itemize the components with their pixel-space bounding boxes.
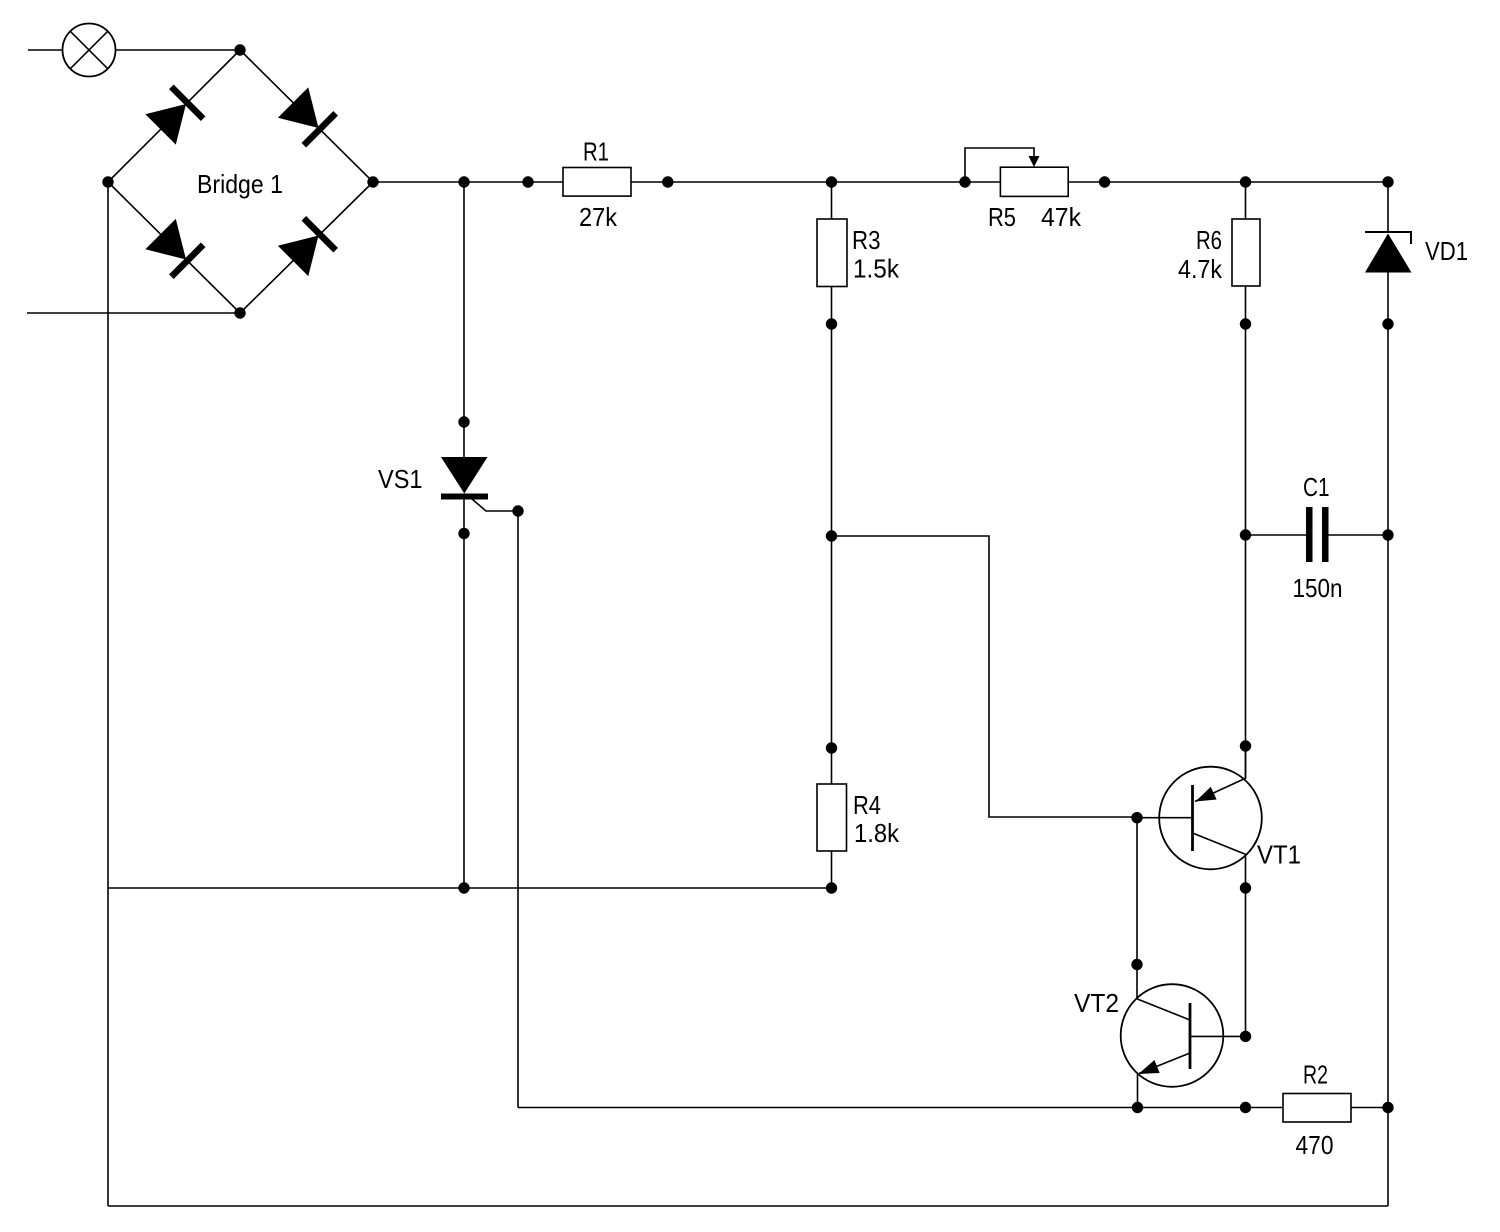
junction R6 bottom pin xyxy=(1240,318,1251,329)
wire VD1 anode down right rail xyxy=(1387,273,1389,1207)
junction R2 right node xyxy=(1382,1102,1393,1113)
wire VT1 base down to VT2 collector xyxy=(1136,817,1138,999)
junction bridge bottom node xyxy=(234,307,245,318)
capacitor C1 xyxy=(1246,507,1389,562)
resistor R1 xyxy=(563,168,631,197)
svg-text:VT2: VT2 xyxy=(1074,988,1119,1018)
svg-text:150n: 150n xyxy=(1293,573,1343,603)
wire bottom mid horizontal xyxy=(518,1107,1283,1109)
bridge diode (top-left) xyxy=(145,85,206,146)
thyristor VS1 xyxy=(441,182,518,888)
wire VT1 emitter up pin xyxy=(1245,746,1247,779)
wire bridge side bottom-right xyxy=(240,182,373,313)
potentiometer R5 xyxy=(965,148,1068,196)
wire VS1 gate down xyxy=(517,511,519,1108)
junction R3 bottom pin xyxy=(826,318,837,329)
junction VT1 base node xyxy=(1131,812,1142,823)
wire main top rail segment 3 xyxy=(1068,181,1388,183)
svg-text:VT1: VT1 xyxy=(1257,840,1301,870)
svg-text:VD1: VD1 xyxy=(1425,236,1468,266)
bridge diode (top-right) xyxy=(277,87,338,148)
svg-text:R4: R4 xyxy=(853,790,881,820)
junction bridge right node xyxy=(367,176,378,187)
svg-text:1.5k: 1.5k xyxy=(853,254,900,284)
junction C1 right node xyxy=(1382,529,1393,540)
junction VT2 collector pin xyxy=(1131,959,1142,970)
junction bridge top node xyxy=(234,44,245,55)
wire AC input stub bottom xyxy=(27,312,240,314)
junction VD1 anode pin xyxy=(1382,318,1393,329)
svg-text:R1: R1 xyxy=(583,137,609,167)
transistor VT1 (PNP) xyxy=(1137,767,1262,870)
wire bridge side top-left xyxy=(108,50,240,182)
junction VT2 emitter node xyxy=(1132,1102,1143,1113)
junction VS1 cathode wire node xyxy=(458,882,469,893)
svg-text:27k: 27k xyxy=(579,202,618,232)
junction VT1 emitter pin xyxy=(1240,740,1251,751)
wire VT1 collector down to VT2 base xyxy=(1245,854,1247,1036)
wire R2 right pin xyxy=(1351,1107,1388,1109)
junction VS1 gate pin xyxy=(512,505,523,516)
wire R6 bottom down to VT1 emitter xyxy=(1245,286,1247,779)
svg-text:C1: C1 xyxy=(1303,472,1330,502)
resistor R3 xyxy=(817,219,847,287)
wire bridge side bottom-left xyxy=(108,182,240,313)
junction rail VS1 branch xyxy=(458,176,469,187)
svg-text:VS1: VS1 xyxy=(378,464,423,494)
wire R6 top pin xyxy=(1245,182,1247,219)
svg-text:R3: R3 xyxy=(852,225,881,255)
junction R1 left pin xyxy=(522,176,533,187)
wire R3 bottom to R4 top xyxy=(831,287,833,785)
junction VS1 cathode pin xyxy=(458,528,469,539)
wire R3 top pin xyxy=(831,182,833,219)
wire main top rail segment 2 xyxy=(631,181,1000,183)
junction R1 right pin xyxy=(662,176,673,187)
junction R4 top pin xyxy=(826,742,837,753)
wire bottom rail xyxy=(108,1205,1388,1207)
junction rail VD1 branch xyxy=(1382,176,1393,187)
svg-text:4.7k: 4.7k xyxy=(1178,254,1223,284)
junction VT2 base pin xyxy=(1240,1031,1251,1042)
bridge diode (bottom-right) xyxy=(277,216,338,277)
svg-text:470: 470 xyxy=(1296,1130,1334,1160)
transistor VT2 (NPN) xyxy=(1121,984,1246,1107)
junction rail R3 branch xyxy=(826,176,837,187)
junction R5 left pin xyxy=(959,176,970,187)
junction rail R6 branch xyxy=(1240,176,1251,187)
wire horizontal left-rail to R4 bottom xyxy=(108,887,832,889)
svg-text:1.8k: 1.8k xyxy=(854,818,900,848)
wire main top rail segment 1 xyxy=(373,181,563,183)
junction R4 bottom node xyxy=(826,882,837,893)
junction R2 left pin xyxy=(1240,1102,1251,1113)
resistor R2 xyxy=(1283,1094,1351,1123)
svg-text:R5: R5 xyxy=(988,202,1016,232)
zener diode VD1 xyxy=(1365,182,1412,273)
bridge diode (bottom-left) xyxy=(145,218,206,279)
svg-text:R6: R6 xyxy=(1196,225,1222,255)
svg-text:Bridge 1: Bridge 1 xyxy=(197,169,283,199)
wire AC input stub to lamp xyxy=(28,49,63,51)
svg-text:47k: 47k xyxy=(1041,202,1082,232)
junction VT1 collector pin xyxy=(1240,882,1251,893)
wire mid link to VT1 base xyxy=(832,536,1138,817)
junction VS1 anode pin xyxy=(458,416,469,427)
junction bridge left node xyxy=(102,176,113,187)
wire left rail (bridge left node down) xyxy=(107,182,109,1206)
wire R4 bottom pin xyxy=(831,851,833,888)
resistor R4 xyxy=(817,784,847,851)
resistor R6 xyxy=(1232,219,1260,286)
junction mid link node xyxy=(826,530,837,541)
wire lamp to bridge top node xyxy=(116,49,241,51)
junction C1 left node xyxy=(1240,529,1251,540)
svg-text:R2: R2 xyxy=(1303,1060,1328,1090)
junction R5 right pin xyxy=(1099,176,1110,187)
wire bridge side top-right xyxy=(240,50,373,182)
lamp (AC input indicator) xyxy=(63,24,116,77)
